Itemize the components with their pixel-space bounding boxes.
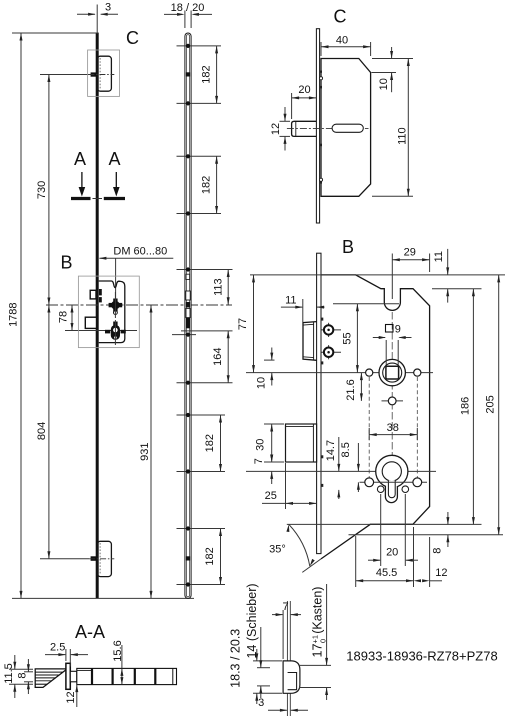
lock case outline bbox=[321, 275, 430, 559]
notch axis extension bbox=[333, 303, 399, 305]
extension line C latch axis bbox=[40, 74, 91, 76]
svg-text:15.6: 15.6 bbox=[112, 640, 124, 661]
case top extension line bbox=[250, 274, 505, 276]
svg-text:C: C bbox=[126, 28, 139, 48]
dimension 10 (chamfer) bbox=[372, 47, 414, 92]
drive pin (strip) bbox=[186, 302, 190, 307]
slider level ticks bbox=[257, 668, 270, 686]
deadbolt (front view) bbox=[286, 424, 317, 462]
dimension 182 second bbox=[200, 156, 218, 213]
svg-text:113: 113 bbox=[213, 278, 225, 296]
section plane lines bbox=[287, 601, 290, 716]
svg-text:77: 77 bbox=[237, 318, 249, 330]
dimension 11.5 (latch height) bbox=[3, 655, 33, 698]
dimension 40 (case width) bbox=[321, 35, 371, 57]
dimension DM leader bbox=[99, 257, 173, 304]
dimension 11 (latch projection) bbox=[281, 294, 325, 322]
label A-A bbox=[75, 622, 105, 642]
hole pair centerline left bbox=[368, 377, 370, 487]
latch bolt (edge view) bbox=[90, 289, 102, 302]
label C bbox=[334, 7, 347, 27]
dimension 18 / 20 (faceplate width) bbox=[164, 2, 212, 28]
hub vertical centerline (edge view) bbox=[114, 292, 116, 345]
case bottom shoulder extension bbox=[287, 523, 482, 525]
lock cylinder (edge view) bbox=[105, 322, 126, 340]
strip clips bbox=[321, 318, 323, 487]
svg-text:3: 3 bbox=[105, 2, 111, 14]
dimension 45.5 bbox=[356, 527, 414, 587]
svg-text:12: 12 bbox=[65, 691, 77, 703]
dimension 78 (hub to cylinder) bbox=[58, 305, 74, 331]
svg-text:DM 60...80: DM 60...80 bbox=[113, 246, 167, 258]
dimension 18.3 / 20.3 bbox=[229, 629, 259, 704]
svg-text:B: B bbox=[342, 237, 354, 257]
svg-text:A: A bbox=[108, 149, 120, 169]
svg-text:40: 40 bbox=[336, 35, 348, 47]
case rivet bottom bbox=[319, 178, 322, 181]
latch opening (strip) bbox=[186, 291, 190, 300]
section label A left bbox=[74, 149, 86, 169]
svg-text:182: 182 bbox=[200, 176, 212, 194]
dimension 15.6 (channel height) bbox=[112, 640, 124, 684]
hole below hub bbox=[382, 397, 404, 405]
faceplate centerline top bbox=[96, 5, 98, 34]
svg-text:29: 29 bbox=[404, 246, 416, 258]
fixing screw lower bbox=[322, 345, 342, 359]
extension line bottom (1788) bbox=[12, 597, 194, 599]
rail inner notch bbox=[288, 673, 297, 690]
section arrow right bbox=[104, 172, 125, 199]
svg-text:20: 20 bbox=[298, 84, 310, 96]
bottom keeper centerline bbox=[89, 558, 114, 560]
case rivet top bbox=[319, 77, 322, 80]
svg-text:25: 25 bbox=[265, 490, 277, 502]
dimension 29 bbox=[392, 246, 429, 299]
svg-text:10: 10 bbox=[256, 377, 268, 389]
top keeper housing (edge view) bbox=[97, 56, 111, 91]
cylinder axis line bbox=[246, 470, 436, 472]
hub vertical centerline bbox=[391, 312, 393, 503]
follower hub bbox=[379, 359, 405, 385]
cylinder slot (strip) bbox=[186, 318, 190, 328]
svg-text:931: 931 bbox=[139, 443, 151, 461]
profile bottom extension bbox=[253, 692, 282, 694]
screw hole right below cylinder bbox=[402, 486, 409, 493]
dimension 7 (profile) bbox=[272, 601, 301, 659]
dimension 8 (latch core) bbox=[16, 659, 33, 694]
dimension 205 bbox=[485, 275, 501, 535]
latch bolt section (hatched) bbox=[35, 669, 66, 688]
strip clips bbox=[320, 71, 322, 184]
dimension 3 (faceplate thickness) bbox=[77, 2, 118, 16]
dimension 1788 bbox=[7, 33, 22, 598]
dimension 10 (latch to hub axis) bbox=[256, 348, 275, 390]
part number bbox=[346, 649, 497, 664]
svg-text:18 / 20: 18 / 20 bbox=[171, 2, 205, 14]
guide slot (strip) bbox=[186, 274, 190, 279]
dimension 804 bbox=[36, 305, 51, 559]
dimension 730 bbox=[36, 75, 51, 306]
dimension 182 first bbox=[200, 46, 218, 104]
dimension 2.5 (faceplate thickness) bbox=[45, 642, 88, 667]
case corner extension 35deg bbox=[302, 559, 321, 573]
dimension 55 bbox=[342, 304, 359, 373]
svg-text:12: 12 bbox=[270, 123, 282, 135]
dimension 14 (Schieber) bbox=[245, 583, 262, 698]
svg-text:78: 78 bbox=[58, 311, 70, 323]
dimension 11 (case step) bbox=[433, 249, 449, 303]
detail frame B (edge view) bbox=[78, 276, 139, 348]
dimension 14.7 bbox=[325, 437, 340, 499]
profile top extension bbox=[253, 660, 282, 662]
section label A right bbox=[108, 149, 120, 169]
svg-text:186: 186 bbox=[459, 397, 471, 415]
svg-text:C: C bbox=[334, 7, 347, 27]
dimension 931 bbox=[139, 305, 153, 598]
svg-text:12: 12 bbox=[435, 567, 447, 579]
svg-text:182: 182 bbox=[204, 547, 216, 565]
svg-text:205: 205 bbox=[485, 395, 497, 413]
dimension 12 (tongue) bbox=[65, 685, 78, 707]
svg-text:164: 164 bbox=[212, 348, 224, 366]
label B (edge view) bbox=[60, 253, 72, 273]
dimension 20 (latch projection) bbox=[292, 84, 317, 119]
keeper latch bolt bbox=[292, 121, 317, 136]
dimension 30 (deadbolt height) bbox=[255, 424, 284, 462]
hub side hole left bbox=[366, 369, 373, 376]
keeper case outline bbox=[321, 59, 371, 197]
svg-text:110: 110 bbox=[396, 127, 408, 145]
svg-text:21.6: 21.6 bbox=[345, 379, 357, 400]
profile cylinder hole bbox=[376, 455, 408, 502]
dimension 164 bbox=[212, 331, 230, 383]
rail profile outline bbox=[283, 661, 300, 693]
svg-text:38: 38 bbox=[387, 422, 399, 434]
cylinder hole axis bbox=[360, 481, 428, 483]
svg-text:1788: 1788 bbox=[7, 302, 19, 326]
dimension 110 (case height) bbox=[372, 59, 413, 197]
section arrow left bbox=[71, 172, 91, 199]
svg-text:14 (Schieber): 14 (Schieber) bbox=[245, 583, 259, 658]
screw hole left below cylinder bbox=[377, 486, 384, 493]
hub axis line bbox=[246, 372, 433, 374]
label square 9 bbox=[386, 324, 401, 336]
slider channel bbox=[77, 668, 177, 684]
svg-text:11.5: 11.5 bbox=[3, 663, 15, 684]
deadbolt (edge view) bbox=[85, 317, 96, 328]
svg-text:30: 30 bbox=[255, 439, 267, 451]
svg-text:11: 11 bbox=[285, 294, 296, 306]
svg-text:A-A: A-A bbox=[75, 622, 105, 642]
dimension 77 bbox=[237, 275, 255, 373]
lock faceplate strip bbox=[317, 253, 321, 553]
bottom keeper housing (edge view) bbox=[97, 541, 111, 576]
fixing screw upper bbox=[322, 323, 342, 337]
dimension 8.5 bbox=[340, 442, 360, 492]
top keeper latch bolt bbox=[91, 72, 97, 76]
hub follower (edge view) bbox=[109, 299, 123, 315]
keeper faceplate strip bbox=[316, 29, 319, 223]
cylinder side hole left bbox=[365, 478, 374, 487]
svg-text:B: B bbox=[60, 253, 72, 273]
detail frame C (edge view) bbox=[88, 50, 120, 96]
hub axis line bbox=[46, 304, 232, 306]
dimension 8 (bottom chamfer) bbox=[431, 512, 449, 554]
case level ticks right bbox=[299, 665, 331, 687]
svg-text:182: 182 bbox=[204, 434, 216, 452]
svg-text:45.5: 45.5 bbox=[376, 567, 397, 579]
extension line top (1788) bbox=[12, 32, 99, 34]
label B bbox=[342, 237, 354, 257]
dimension 20 (screw holes) bbox=[368, 494, 418, 566]
dimension 3 (profile) bbox=[258, 697, 308, 712]
dimension 25 (deadbolt width) bbox=[262, 463, 317, 509]
svg-text:8: 8 bbox=[16, 672, 28, 678]
keeper slot bbox=[332, 124, 363, 132]
rivet row lines bbox=[172, 46, 233, 585]
svg-text:7: 7 bbox=[253, 458, 265, 464]
dimension 182 third bbox=[204, 415, 222, 472]
svg-text:18933-18936-RZ78+PZ78: 18933-18936-RZ78+PZ78 bbox=[346, 649, 497, 664]
lower slot (strip) bbox=[186, 308, 190, 317]
rivets bbox=[186, 44, 190, 587]
hole pair centerline right bbox=[416, 377, 418, 487]
svg-text:55: 55 bbox=[342, 332, 354, 344]
dimension 9 (square) bbox=[373, 336, 412, 365]
latch centerline bbox=[287, 127, 369, 129]
svg-text:10: 10 bbox=[378, 78, 390, 90]
svg-text:3: 3 bbox=[258, 697, 264, 709]
top slider pin (square) bbox=[186, 72, 190, 76]
faceplate strip outline bbox=[185, 33, 191, 598]
angle 35 arc bbox=[269, 524, 315, 567]
section trace dash bbox=[93, 198, 103, 200]
extension line 804 bottom bbox=[40, 558, 89, 560]
dimension 38 bbox=[369, 422, 417, 440]
faceplate edge (thick line) bbox=[96, 33, 99, 598]
cylinder axis line (edge view) bbox=[65, 330, 137, 332]
cylinder side hole right bbox=[413, 478, 422, 487]
dimension 113 bbox=[213, 270, 230, 305]
case shoulder extension line bbox=[432, 288, 482, 290]
svg-text:182: 182 bbox=[200, 65, 212, 83]
svg-text:35°: 35° bbox=[269, 544, 286, 556]
svg-text:18.3 / 20.3: 18.3 / 20.3 bbox=[229, 629, 243, 688]
svg-text:A: A bbox=[74, 149, 86, 169]
svg-text:7: 7 bbox=[283, 601, 289, 613]
dimension 17 (Kasten) bbox=[311, 584, 329, 700]
case bottom extension bbox=[349, 534, 504, 536]
latch bolt (front view) bbox=[303, 322, 317, 361]
dimension 12 (latch height) bbox=[270, 107, 290, 151]
dimension 182 fourth bbox=[204, 529, 222, 585]
svg-text:11: 11 bbox=[433, 251, 445, 262]
dimension 7 (deadbolt to cylinder axis) bbox=[253, 455, 284, 485]
dimension 12 (right chamfer) bbox=[414, 537, 448, 587]
hub side hole right bbox=[414, 369, 421, 376]
svg-text:20: 20 bbox=[386, 547, 398, 559]
svg-text:804: 804 bbox=[36, 422, 48, 440]
slider tongue bbox=[70, 671, 77, 682]
bottom keeper latch bolt bbox=[91, 556, 97, 561]
svg-text:8.5: 8.5 bbox=[340, 442, 352, 457]
top keeper centerline bbox=[88, 74, 114, 76]
svg-text:14.7: 14.7 bbox=[325, 440, 337, 461]
svg-text:2.5: 2.5 bbox=[50, 642, 65, 654]
svg-text:8: 8 bbox=[431, 548, 443, 554]
svg-text:730: 730 bbox=[36, 181, 48, 199]
main lock case (edge view) bbox=[99, 281, 125, 343]
svg-text:9: 9 bbox=[395, 324, 401, 336]
bottom slider pin (square) bbox=[186, 556, 190, 560]
dimension 21.6 bbox=[345, 373, 363, 401]
label DM 60...80 bbox=[113, 246, 167, 258]
dimension 186 bbox=[459, 289, 475, 525]
faceplate section bar bbox=[66, 663, 70, 689]
label C (edge view) bbox=[126, 28, 139, 48]
